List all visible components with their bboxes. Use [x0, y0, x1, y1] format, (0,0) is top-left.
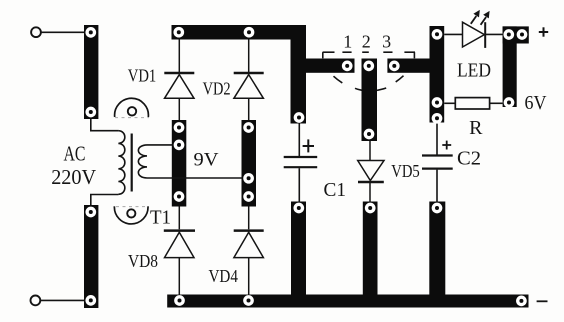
svg-text:R: R	[469, 117, 483, 139]
capacitor C1	[284, 124, 318, 203]
pad pin1	[342, 61, 353, 72]
svg-text:1: 1	[343, 31, 352, 51]
svg-text:LED: LED	[457, 60, 491, 82]
diode VD2	[234, 40, 264, 121]
C1 plus sign	[303, 139, 314, 152]
wire secondary top tap	[147, 144, 173, 146]
bus bar C1 lower	[291, 202, 306, 308]
pad mid-left bar bottom	[174, 191, 185, 202]
pad mid-right bar bottom	[243, 191, 254, 202]
svg-text:T1: T1	[150, 207, 171, 229]
terminal bottom-left	[31, 296, 41, 306]
svg-text:2: 2	[362, 31, 371, 51]
bus bar top	[172, 25, 307, 40]
pad right bar R	[504, 97, 515, 108]
svg-text:VD2: VD2	[203, 79, 231, 99]
pad mid-left bar 9V tap	[174, 140, 185, 151]
wire AC bottom to transformer primary	[91, 195, 119, 207]
bus bar C2 lower	[429, 202, 445, 308]
diode VD5	[358, 141, 384, 202]
pad bottom bar VD8	[174, 295, 185, 306]
bus bar bridge mid-left	[172, 120, 187, 207]
transformer core	[131, 134, 133, 192]
LED D	[444, 22, 502, 48]
svg-text:C1: C1	[324, 179, 347, 201]
pad top bar right (VD2)	[244, 27, 255, 38]
pad C1 lower bar	[293, 203, 304, 214]
pad on left-bottom bar upper	[85, 207, 96, 218]
wire	[41, 299, 84, 301]
pad right bar LED	[503, 29, 514, 40]
bus bar pin2	[362, 59, 378, 142]
resistor R	[444, 98, 502, 109]
regulator dashed outline	[323, 52, 415, 90]
svg-text:C2: C2	[457, 148, 481, 170]
bus bar pin1	[306, 59, 355, 73]
LED arrow 2	[481, 11, 490, 25]
bus bar left-top	[84, 25, 98, 119]
svg-text:9V: 9V	[194, 150, 219, 171]
pad pin3	[389, 61, 400, 72]
pad mid-left bar top	[174, 122, 185, 133]
pad minus terminal	[516, 296, 527, 307]
pad top bar left (VD1)	[173, 27, 184, 38]
svg-text:VD4: VD4	[208, 266, 238, 286]
bus bar left-bottom	[84, 205, 98, 308]
pad mid-right bar tap	[243, 173, 254, 184]
minus sign output	[537, 300, 548, 302]
pad on left-top bar upper	[85, 27, 96, 38]
bus bar regulator trunk	[291, 25, 307, 124]
capacitor C2	[422, 123, 453, 203]
pad mid-right bar top	[243, 122, 254, 133]
LED arrow 1	[471, 10, 480, 24]
terminal top-left	[31, 27, 41, 37]
C2 plus sign	[442, 141, 451, 150]
pad bottom bar VD4	[243, 295, 254, 306]
pad on left-top bar lower	[85, 107, 96, 118]
pad pin2 bar bottom	[364, 129, 375, 140]
diode VD1	[164, 40, 194, 121]
svg-text:VD8: VD8	[128, 251, 158, 271]
bus bar plus terminal block	[503, 26, 529, 43]
pad plus terminal	[517, 29, 528, 40]
transformer shield symbol top	[115, 98, 149, 117]
svg-text:6V: 6V	[525, 92, 547, 114]
wire	[41, 31, 84, 33]
diode VD4	[234, 207, 264, 296]
pad LED left bar top	[432, 29, 443, 40]
diode VD8	[164, 207, 195, 296]
transformer T1 secondary winding	[138, 145, 147, 178]
bus bar LED left	[430, 26, 445, 123]
wire secondary bottom tap	[147, 177, 242, 179]
pad LED left bar bottom	[432, 113, 443, 124]
transformer T1 primary winding	[118, 131, 124, 195]
wire AC top to transformer primary	[91, 118, 119, 131]
bus bar bridge mid-right	[242, 120, 257, 207]
pad VD5 lower bar	[365, 203, 376, 214]
pad LED left bar R	[432, 97, 443, 108]
bus bar VD5 lower	[363, 202, 378, 308]
transformer shield symbol bottom	[114, 206, 148, 224]
svg-text:3: 3	[382, 31, 391, 51]
pad on left-bottom bar lower	[85, 295, 96, 306]
pad trunk bottom	[294, 112, 305, 123]
svg-text:VD1: VD1	[128, 65, 157, 85]
svg-text:AC: AC	[64, 142, 86, 166]
svg-text:VD5: VD5	[391, 161, 420, 181]
pad pin2	[363, 61, 374, 72]
pad C2 lower bar	[432, 203, 443, 214]
bus bar LED right	[503, 26, 517, 107]
bus bar bottom	[167, 295, 528, 308]
plus sign output	[539, 27, 548, 36]
svg-text:220V: 220V	[51, 165, 96, 189]
bus bar pin3	[387, 59, 430, 73]
